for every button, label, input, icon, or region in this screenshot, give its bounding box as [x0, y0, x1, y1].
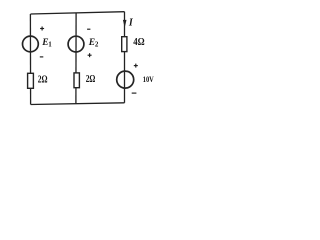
svg-text:2Ω: 2Ω: [38, 75, 48, 86]
svg-text:2Ω: 2Ω: [86, 74, 96, 85]
svg-text:1: 1: [48, 41, 52, 49]
svg-text:I: I: [128, 18, 134, 29]
svg-text:2: 2: [95, 41, 99, 49]
svg-text:4Ω: 4Ω: [133, 36, 145, 48]
svg-text:10V: 10V: [143, 75, 154, 84]
